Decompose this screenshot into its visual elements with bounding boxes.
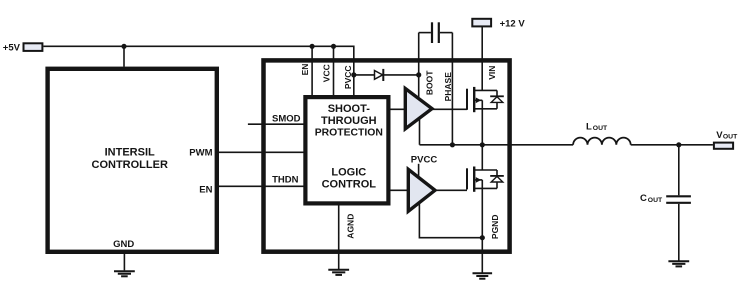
- svg-text:CONTROL: CONTROL: [322, 178, 377, 190]
- wire VIN drop: [481, 27, 483, 91]
- logic box (shoot-through protection / logic control): [305, 97, 388, 203]
- svg-text:CONTROLLER: CONTROLLER: [92, 159, 168, 171]
- svg-text:OUT: OUT: [723, 134, 738, 141]
- svg-text:INTERSIL: INTERSIL: [105, 146, 155, 158]
- wire PHASE line: [451, 33, 453, 145]
- wire upper driver output to gate: [431, 108, 467, 110]
- node junction phase/MOSFET: [480, 142, 485, 147]
- svg-text:EN: EN: [300, 64, 310, 76]
- node junction EN tap: [310, 44, 315, 49]
- controller box U1: [48, 69, 217, 252]
- ground controller: [114, 271, 135, 276]
- svg-text:PROTECTION: PROTECTION: [315, 128, 383, 139]
- wire SMOD stub: [248, 123, 305, 125]
- ground AGND: [328, 270, 349, 275]
- wire lower MOSFET drain to phase rail: [481, 145, 483, 170]
- node junction on +5V rail above controller: [121, 44, 126, 49]
- svg-text:PWM: PWM: [189, 147, 212, 158]
- op-amp buffer A2 (low-side driver): [408, 169, 435, 211]
- terminal +5V: [3, 43, 43, 54]
- node junction phase/PHASE pin: [450, 142, 455, 147]
- wire upper MOSFET source to phase rail: [481, 109, 483, 145]
- svg-text:VCC: VCC: [321, 64, 331, 82]
- wire output to C-OUT: [678, 145, 680, 196]
- svg-text:LOGIC: LOGIC: [331, 167, 366, 179]
- wire +5V rail: [43, 46, 353, 95]
- wire PVCC to diode anode: [354, 74, 375, 76]
- terminal V-OUT: [714, 130, 738, 149]
- wire BOOT line: [418, 33, 420, 99]
- node junction BOOT: [416, 72, 421, 77]
- wire EN drop: [311, 46, 313, 95]
- svg-text:SMOD: SMOD: [272, 113, 301, 124]
- svg-text:THROUGH: THROUGH: [321, 115, 377, 127]
- svg-text:+12 V: +12 V: [500, 18, 526, 29]
- svg-text:PVCC: PVCC: [343, 65, 353, 89]
- node junction PVCC/diode: [351, 72, 356, 77]
- svg-text:BOOT: BOOT: [424, 70, 434, 95]
- wire lower MOSFET source to PGND: [481, 188, 483, 237]
- wire lower driver output to gate: [434, 189, 467, 191]
- ground PGND: [473, 273, 493, 278]
- svg-text:AGND: AGND: [345, 214, 355, 239]
- wire VCC drop: [333, 46, 335, 95]
- svg-text:C: C: [640, 193, 647, 204]
- capacitor C-boot: [419, 22, 453, 43]
- svg-text:THDN: THDN: [272, 175, 299, 186]
- svg-text:GND: GND: [113, 239, 134, 250]
- wire inductor to output: [631, 144, 713, 146]
- wire upper driver return to phase: [419, 117, 421, 145]
- ground C-OUT: [668, 261, 689, 266]
- capacitor C-OUT: [640, 193, 691, 204]
- svg-text:OUT: OUT: [593, 125, 608, 132]
- wire AGND to ground: [338, 203, 340, 269]
- node junction output: [676, 142, 681, 147]
- wire +5V to controller VCC: [123, 46, 125, 67]
- wire EN controller to THDN: [217, 185, 305, 187]
- svg-text:+5V: +5V: [3, 43, 21, 54]
- wire PGND to ground: [481, 238, 483, 273]
- terminal +12V: [472, 18, 525, 29]
- svg-text:PGND: PGND: [490, 215, 500, 240]
- wire PWM controller to logic: [217, 151, 305, 153]
- op-amp buffer A1 (high-side driver): [405, 89, 432, 129]
- svg-text:PVCC: PVCC: [411, 155, 438, 166]
- svg-text:EN: EN: [199, 184, 212, 195]
- driver box U2: [264, 60, 510, 251]
- svg-text:OUT: OUT: [648, 197, 663, 204]
- wire lower driver return to PGND: [419, 202, 482, 238]
- inductor L-OUT: [573, 121, 631, 145]
- transistor Q1 (high-side MOSFET): [467, 87, 504, 112]
- wire PVCC stub to lower driver: [418, 164, 420, 178]
- node junction PGND: [480, 235, 485, 240]
- wire phase rail: [420, 144, 574, 146]
- node junction VCC tap: [331, 44, 336, 49]
- wire controller GND stub: [123, 252, 125, 270]
- wire logic to upper driver input: [388, 108, 405, 110]
- wire logic to lower driver input: [388, 189, 408, 191]
- svg-text:VIN: VIN: [487, 66, 497, 80]
- wire diode cathode to BOOT: [383, 74, 418, 76]
- svg-text:SHOOT-: SHOOT-: [328, 103, 371, 115]
- transistor Q2 (low-side MOSFET): [467, 167, 504, 192]
- svg-text:PHASE: PHASE: [443, 72, 453, 102]
- wire C-OUT to ground: [678, 204, 680, 261]
- svg-text:L: L: [586, 121, 592, 132]
- diode D1 bootstrap: [375, 69, 384, 81]
